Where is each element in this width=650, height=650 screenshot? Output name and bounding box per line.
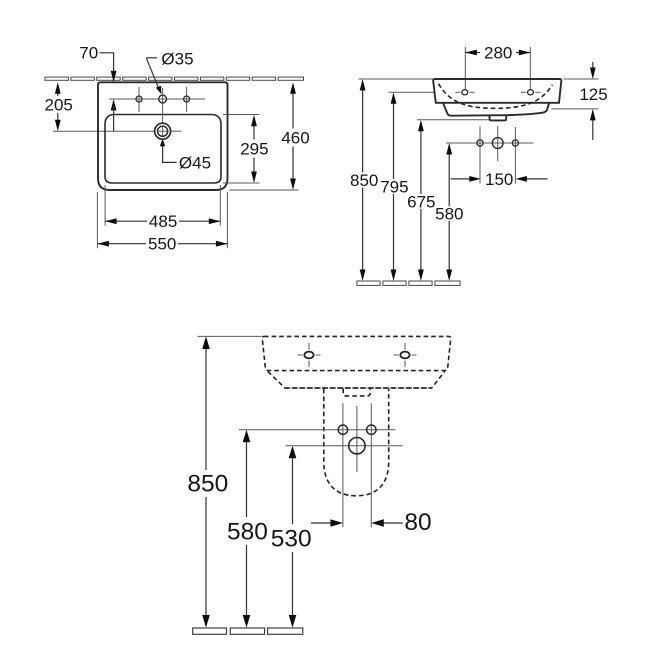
floor hatch (rear) (193, 628, 303, 634)
dim 485 extension right (219, 185, 221, 226)
dim 795 extension line (fixing holes) (389, 91, 436, 93)
dim 125 extension bottom (552, 108, 599, 110)
wall hole left vertical (479, 127, 481, 184)
dim 580 arrow up (446, 143, 452, 155)
svg-text:125: 125 (579, 85, 607, 104)
dim 850 arrow up (360, 79, 366, 91)
svg-text:485: 485 (149, 212, 177, 231)
drain hole outer circle (155, 123, 171, 139)
fixing hole left (rear) (304, 352, 313, 359)
dim 675 line vertical (420, 128, 422, 195)
Ø35 leader horizontal tick (146, 57, 157, 59)
basin inner bowl (plan) (105, 115, 221, 184)
dim 205 line lower (57, 113, 59, 122)
dim 125 extension top (564, 78, 599, 80)
dim 295 arrow up (251, 115, 257, 127)
dim 850 line vertical (362, 87, 364, 173)
dim 295 arrow down (251, 172, 257, 184)
dim 580 arrow down (446, 270, 452, 282)
fixing hole right (rear) (400, 352, 409, 359)
dim 580 line vertical (448, 151, 450, 206)
dim 125 upper line and arrow down (592, 62, 594, 70)
dim 150 left line (451, 178, 474, 180)
trap hole left vertical (342, 403, 344, 527)
dimension 205 extension line (drain axis) (53, 130, 154, 132)
overflow notch dashed (343, 389, 370, 396)
floor hatch (front) (357, 281, 460, 285)
dim 580 arrow down (rear) (243, 615, 251, 628)
wall hole right vertical (514, 127, 516, 184)
svg-text:850: 850 (187, 470, 228, 497)
dim 80 arrow pointing left (371, 519, 384, 527)
trap big hole vertical (356, 406, 358, 472)
drain centre line right segment (171, 130, 182, 132)
dim 80 left line (311, 522, 331, 524)
trap big hole horizontal (530 level) (286, 445, 403, 447)
Ø45 arrowhead up (160, 139, 165, 146)
tap hole right (184, 96, 190, 102)
dim 550 extension right (226, 192, 228, 248)
basin body (front) (433, 79, 561, 103)
Ø35 leader line (146, 58, 158, 88)
dim 795 arrow down (391, 270, 397, 282)
dim 460 arrow up (290, 82, 296, 94)
dim 150 arrow pointing right (469, 176, 481, 182)
wall hole left (477, 140, 483, 146)
dim 280 extension left vertical (464, 47, 466, 89)
wall hole centre vertical (497, 126, 499, 161)
label 70 arrow down at wall (111, 71, 117, 83)
basin inner bowl hidden curve (439, 84, 553, 109)
svg-text:580: 580 (227, 518, 268, 545)
dim 295 line (253, 123, 255, 140)
dim 850 extension line (rim height) (359, 78, 434, 80)
dim 295 extension bottom (223, 182, 260, 184)
pedestal outline dashed (rear) (324, 389, 389, 496)
dim 485 arrow right (209, 218, 221, 224)
dim 530 arrow down (rear) (289, 615, 297, 628)
dim 280 extension right vertical (529, 47, 531, 89)
dim 550 extension left (96, 192, 98, 248)
basin outline dashed (rear) (262, 336, 450, 370)
tap hole centre line (109, 98, 205, 100)
svg-text:80: 80 (404, 509, 431, 536)
svg-text:Ø45: Ø45 (179, 153, 211, 172)
dim 675 arrow up (418, 120, 424, 132)
dim 550 line (97, 243, 146, 245)
svg-text:205: 205 (45, 96, 73, 115)
tap hole centre cross (160, 98, 166, 100)
svg-text:460: 460 (281, 129, 309, 148)
label 70 leader (100, 53, 114, 73)
dim 485 extension left (104, 185, 106, 226)
fixing hole left (front) (462, 90, 468, 95)
dim 460 extension line bottom right (230, 189, 299, 191)
dim 550 arrow left (97, 241, 109, 247)
apron outline dashed (rear) (268, 372, 445, 389)
dim 460 line (292, 91, 294, 129)
svg-text:795: 795 (380, 177, 408, 196)
dim 280 line (465, 52, 480, 54)
dim 485 line (105, 220, 147, 222)
dim 795 arrow up (391, 92, 397, 104)
svg-text:Ø35: Ø35 (161, 49, 193, 68)
dim 280 arrow left (465, 50, 477, 56)
Ø45 leader (163, 146, 177, 162)
svg-text:280: 280 (484, 44, 512, 63)
fixing hole left cross dashes (455, 91, 460, 93)
trap hole left (338, 425, 347, 434)
dim 580 line vertical (rear) (246, 438, 248, 517)
dim 295 extension top (223, 114, 260, 116)
trap hole right (367, 425, 376, 434)
dim 850 arrow down (rear) (202, 615, 210, 628)
dim 205 arrow down (55, 120, 61, 132)
dim 125 lower line and arrow up (592, 118, 594, 141)
dim 80 arrow pointing right (330, 519, 343, 527)
dim 280 arrow right (519, 50, 531, 56)
apron bottom edge dashed (286, 387, 432, 389)
svg-text:580: 580 (435, 204, 463, 223)
wall hole right (512, 140, 518, 146)
dim 150 right line (523, 178, 548, 180)
fixing hole left crosshair (298, 354, 303, 356)
fixing hole right crosshair (394, 354, 399, 356)
dim 850 arrow down (360, 270, 366, 282)
dim 675 arrow down (418, 270, 424, 282)
tap hole vertical centre lines (138, 87, 140, 112)
dim 675 extension line (basin underside) (417, 119, 489, 121)
wall holes centre line (446, 142, 534, 144)
dim 530 line vertical (rear) (292, 454, 294, 524)
Ø35 arrowhead (156, 86, 162, 95)
dim 150 arrow pointing left (515, 176, 527, 182)
drain hole inner circle (158, 126, 168, 136)
dim 205 line upper (57, 91, 59, 96)
svg-text:150: 150 (485, 170, 513, 189)
dim 530 arrow up (rear) (289, 446, 297, 459)
tap hole left (136, 96, 142, 102)
dim 850 line vertical (rear) (205, 345, 207, 471)
svg-text:70: 70 (79, 44, 98, 63)
trap big hole (349, 438, 365, 454)
svg-text:295: 295 (240, 139, 268, 158)
wall hatch line (plan) (45, 77, 304, 80)
fixing hole right (front) (528, 90, 534, 95)
dim 550 arrow right (216, 241, 228, 247)
trap holes horizontal (580 level) (239, 429, 396, 431)
dim 485 arrow left (105, 218, 117, 224)
dim 70 lower line (113, 106, 115, 131)
tap hole centre (ring) (159, 95, 167, 103)
basin outer rim (plan) (98, 82, 228, 190)
dim 460 arrow down (290, 179, 296, 191)
drain cross ticks (158, 130, 167, 132)
svg-text:550: 550 (148, 235, 176, 254)
svg-text:530: 530 (271, 526, 312, 553)
svg-text:850: 850 (350, 171, 378, 190)
dim 70 lower arrow up to tap axis (111, 99, 117, 111)
fixing hole right cross dashes (521, 91, 526, 93)
dim 850 arrow up (rear) (202, 336, 210, 349)
trap hole right vertical (370, 403, 372, 527)
dim 580 arrow up (rear) (243, 430, 251, 443)
dim 850 extension line (rear top) (198, 335, 262, 337)
dim 795 line vertical (393, 100, 395, 179)
basin apron (front) (443, 103, 549, 116)
drain stub (front) (489, 115, 506, 121)
dim 205 arrow up (55, 82, 61, 94)
wall hole centre (492, 138, 503, 149)
svg-text:675: 675 (407, 192, 435, 211)
dim 80 right line (383, 522, 403, 524)
